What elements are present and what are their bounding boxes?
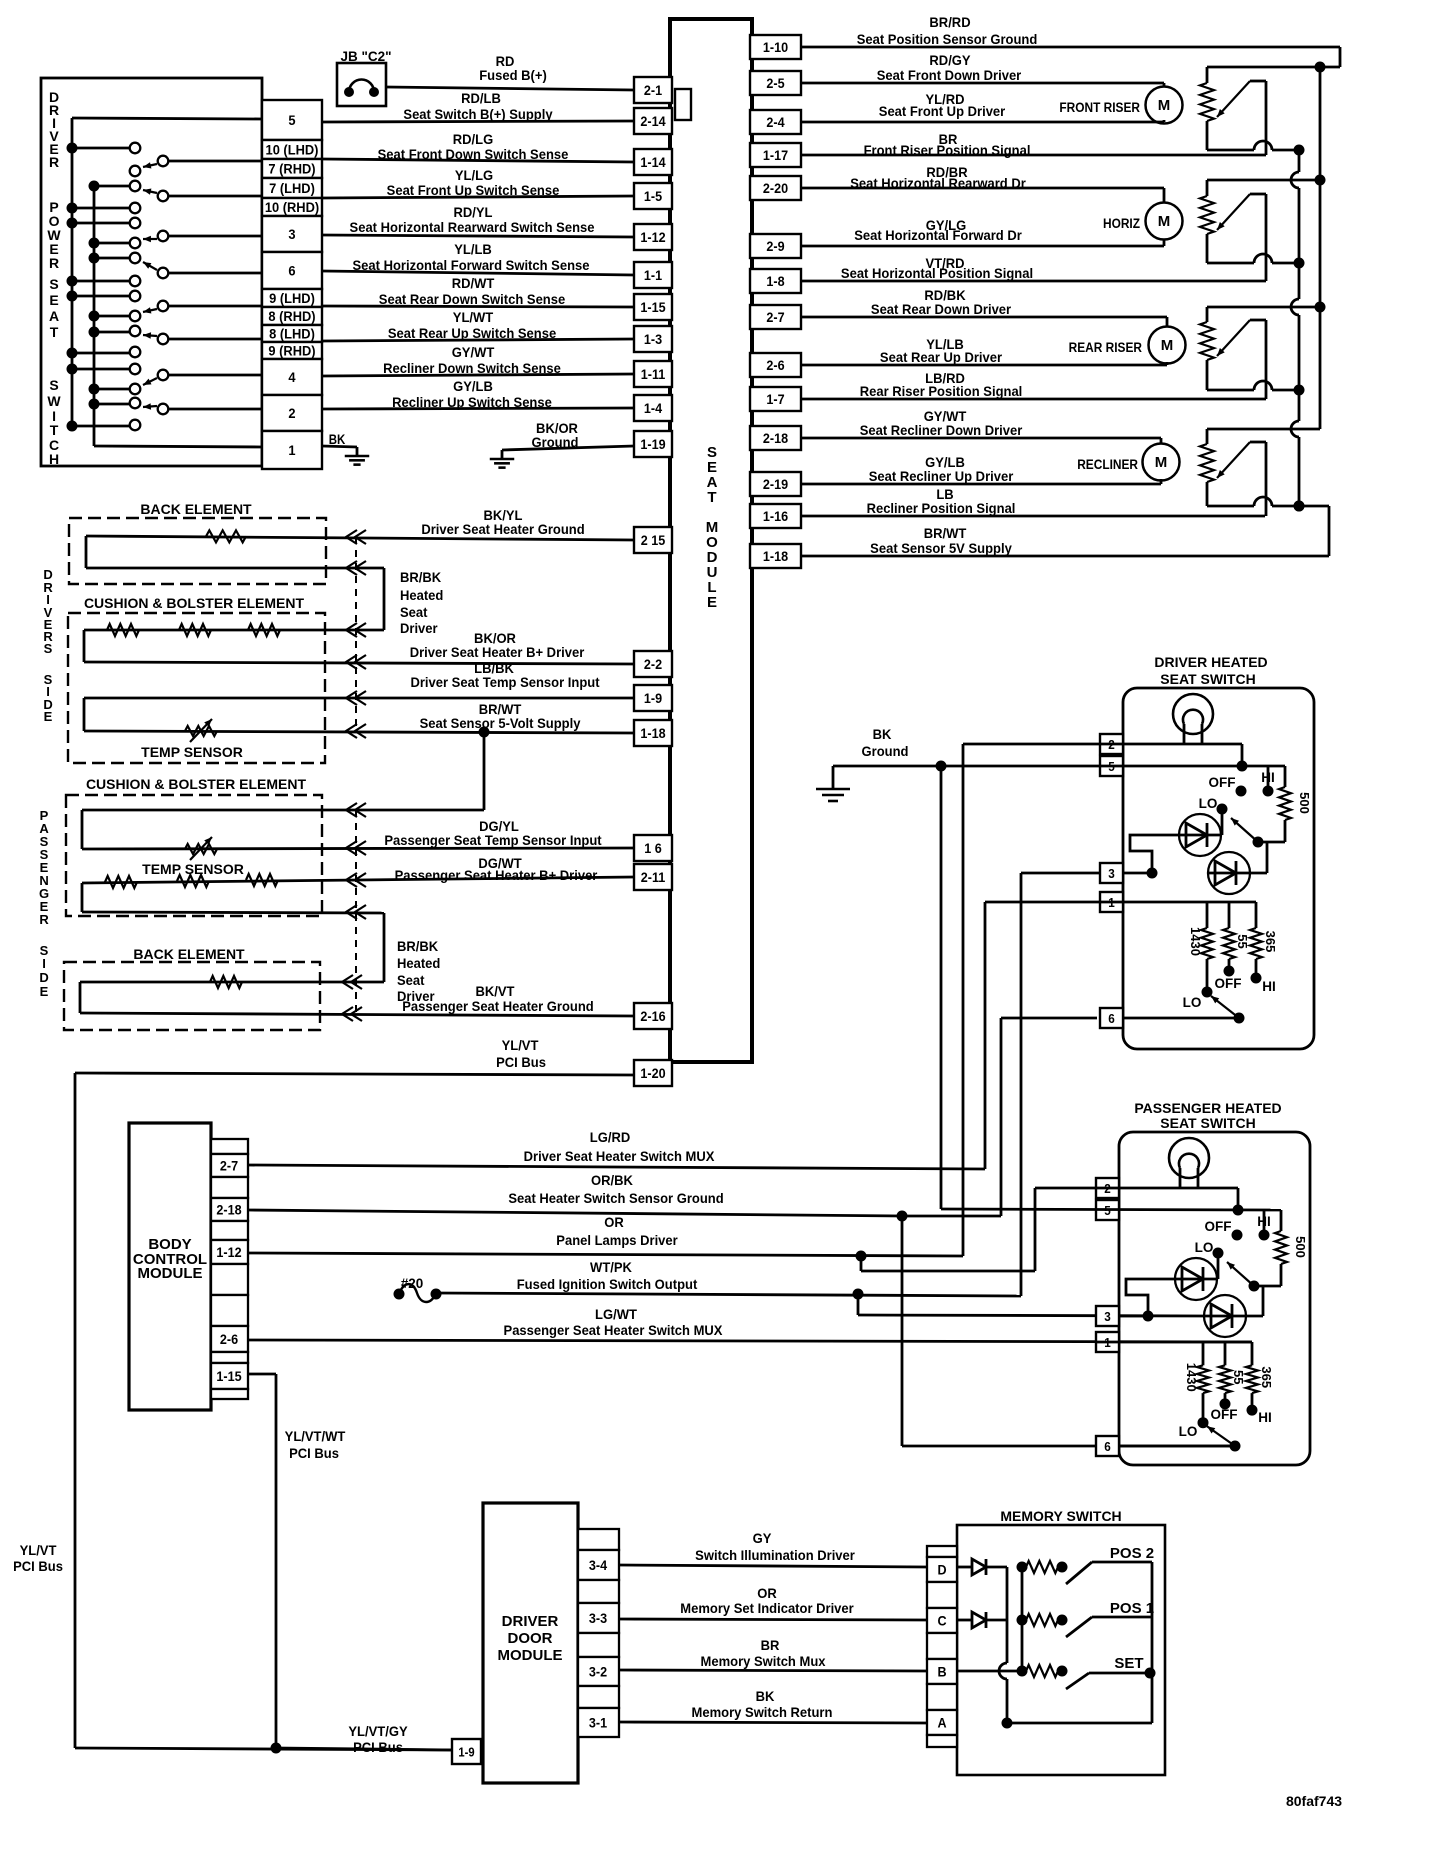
svg-text:BR/BK: BR/BK [397, 939, 438, 955]
svg-text:365: 365 [1263, 931, 1278, 953]
svg-text:500: 500 [1297, 792, 1312, 814]
svg-text:Fused B(+): Fused B(+) [479, 68, 547, 84]
svg-text:10 (RHD): 10 (RHD) [265, 200, 319, 216]
svg-text:OR/BK: OR/BK [591, 1173, 633, 1189]
svg-text:PCI Bus: PCI Bus [289, 1446, 339, 1462]
svg-text:1-4: 1-4 [644, 400, 663, 416]
svg-text:BR/RD: BR/RD [929, 15, 970, 31]
svg-text:6: 6 [288, 263, 295, 279]
svg-text:PCI Bus: PCI Bus [13, 1559, 63, 1575]
svg-text:Driver Seat Heater Switch MUX: Driver Seat Heater Switch MUX [524, 1149, 715, 1165]
svg-text:10 (LHD): 10 (LHD) [266, 142, 319, 158]
svg-text:Seat Front Down Switch Sense: Seat Front Down Switch Sense [378, 147, 569, 163]
svg-text:2-14: 2-14 [640, 113, 666, 129]
svg-text:OFF: OFF [1205, 1219, 1232, 1234]
svg-text:Seat Position Sensor Ground: Seat Position Sensor Ground [857, 32, 1038, 48]
svg-text:7 (LHD): 7 (LHD) [269, 181, 315, 197]
svg-text:BK: BK [329, 432, 346, 447]
svg-text:CUSHION & BOLSTER ELEMENT: CUSHION & BOLSTER ELEMENT [84, 595, 305, 611]
svg-text:M: M [1158, 97, 1171, 114]
svg-text:Recliner Position Signal: Recliner Position Signal [867, 501, 1016, 517]
svg-text:2-7: 2-7 [220, 1158, 238, 1174]
svg-text:Seat Rear Down Driver: Seat Rear Down Driver [871, 302, 1012, 318]
svg-text:2-16: 2-16 [640, 1008, 665, 1024]
svg-text:Switch Illumination Driver: Switch Illumination Driver [695, 1548, 855, 1564]
svg-text:POS 2: POS 2 [1110, 1545, 1154, 1562]
svg-text:GY: GY [753, 1531, 772, 1547]
svg-text:OFF: OFF [1215, 976, 1242, 991]
svg-text:HORIZ: HORIZ [1103, 215, 1140, 231]
svg-text:LO: LO [1183, 995, 1202, 1010]
svg-text:PASSENGER HEATED: PASSENGER HEATED [1134, 1100, 1281, 1116]
svg-text:5: 5 [288, 113, 296, 129]
svg-text:R: R [39, 912, 49, 927]
svg-text:BR: BR [761, 1638, 780, 1654]
svg-text:3-2: 3-2 [589, 1664, 607, 1680]
svg-text:YL/LB: YL/LB [454, 242, 492, 258]
svg-text:3: 3 [288, 227, 295, 243]
svg-text:80faf743: 80faf743 [1286, 1793, 1342, 1809]
svg-text:H: H [49, 451, 59, 467]
svg-text:GY/LB: GY/LB [453, 379, 493, 395]
svg-text:MODULE: MODULE [498, 1647, 563, 1664]
svg-text:Seat Horizontal Rearward Switc: Seat Horizontal Rearward Switch Sense [350, 220, 595, 236]
svg-text:Ground: Ground [862, 744, 909, 760]
svg-text:3: 3 [1108, 866, 1115, 881]
svg-text:B: B [937, 1664, 946, 1680]
svg-text:YL/WT: YL/WT [453, 310, 494, 326]
svg-text:Passenger Seat Heater Switch M: Passenger Seat Heater Switch MUX [504, 1323, 723, 1339]
svg-text:55: 55 [1231, 1370, 1246, 1384]
svg-text:1-12: 1-12 [640, 229, 665, 245]
svg-text:HI: HI [1261, 770, 1275, 785]
svg-text:YL/VT: YL/VT [502, 1038, 540, 1054]
svg-text:POS 1: POS 1 [1110, 1600, 1154, 1617]
svg-text:Passenger Seat Heater B+ Drive: Passenger Seat Heater B+ Driver [395, 868, 598, 884]
svg-text:HI: HI [1257, 1214, 1271, 1229]
svg-text:Seat Sensor 5-Volt Supply: Seat Sensor 5-Volt Supply [420, 716, 581, 732]
svg-text:T: T [707, 489, 716, 506]
svg-text:TEMP SENSOR: TEMP SENSOR [141, 744, 243, 760]
svg-text:Seat Horizontal Forward Switch: Seat Horizontal Forward Switch Sense [353, 258, 590, 274]
svg-text:Driver Seat Heater Ground: Driver Seat Heater Ground [421, 522, 584, 538]
svg-text:LG/RD: LG/RD [590, 1130, 631, 1146]
svg-text:1-11: 1-11 [641, 366, 666, 382]
svg-text:Panel Lamps Driver: Panel Lamps Driver [556, 1233, 678, 1249]
svg-text:1-20: 1-20 [640, 1065, 665, 1081]
svg-text:E: E [40, 984, 49, 999]
svg-text:1-15: 1-15 [216, 1368, 242, 1384]
svg-text:M: M [1161, 337, 1174, 354]
svg-text:Memory Switch Mux: Memory Switch Mux [701, 1654, 826, 1670]
svg-text:Memory Switch Return: Memory Switch Return [692, 1705, 833, 1721]
svg-text:1-18: 1-18 [640, 725, 665, 741]
svg-text:Seat Recliner Down Driver: Seat Recliner Down Driver [860, 423, 1023, 439]
svg-text:BK: BK [756, 1689, 775, 1705]
svg-text:D: D [937, 1562, 946, 1578]
svg-text:Seat Heater Switch Sensor Grou: Seat Heater Switch Sensor Ground [508, 1191, 723, 1207]
svg-text:DRIVER: DRIVER [502, 1613, 559, 1630]
svg-text:CUSHION & BOLSTER ELEMENT: CUSHION & BOLSTER ELEMENT [86, 776, 307, 792]
svg-text:RD/WT: RD/WT [452, 276, 495, 292]
svg-text:BR/BK: BR/BK [400, 570, 441, 586]
svg-text:Seat: Seat [400, 605, 428, 621]
svg-text:FRONT RISER: FRONT RISER [1059, 99, 1140, 115]
svg-text:Recliner Up Switch Sense: Recliner Up Switch Sense [392, 395, 552, 411]
svg-text:YL/LG: YL/LG [455, 168, 493, 184]
svg-text:BK/VT: BK/VT [475, 984, 515, 1000]
svg-text:1-14: 1-14 [640, 154, 666, 170]
svg-text:9 (LHD): 9 (LHD) [269, 291, 315, 307]
svg-text:A: A [937, 1715, 946, 1731]
svg-text:Seat Horizontal Position Signa: Seat Horizontal Position Signal [841, 266, 1033, 282]
svg-text:2-9: 2-9 [766, 238, 784, 254]
svg-text:E: E [44, 709, 53, 724]
svg-text:R: R [49, 154, 59, 170]
svg-text:OFF: OFF [1211, 1407, 1238, 1422]
svg-text:LO: LO [1195, 1240, 1214, 1255]
svg-text:2-5: 2-5 [766, 75, 785, 91]
svg-text:PCI Bus: PCI Bus [496, 1055, 546, 1071]
svg-text:Rear Riser Position Signal: Rear Riser Position Signal [860, 384, 1023, 400]
svg-text:Seat Horizontal Forward Dr: Seat Horizontal Forward Dr [854, 228, 1022, 244]
svg-text:6: 6 [1108, 1011, 1115, 1026]
svg-text:RD/GY: RD/GY [929, 53, 970, 69]
svg-text:T: T [50, 422, 59, 438]
svg-text:Seat Front Up Switch Sense: Seat Front Up Switch Sense [387, 183, 560, 199]
svg-text:OR: OR [604, 1215, 624, 1231]
svg-text:PCI Bus: PCI Bus [353, 1740, 403, 1756]
svg-text:2 15: 2 15 [641, 532, 666, 548]
svg-text:Fused Ignition Switch Output: Fused Ignition Switch Output [517, 1277, 698, 1293]
svg-text:R: R [49, 255, 59, 271]
svg-text:T: T [50, 324, 59, 340]
svg-text:2-1: 2-1 [644, 82, 663, 98]
svg-text:2-2: 2-2 [644, 656, 662, 672]
svg-text:1-1: 1-1 [644, 267, 663, 283]
svg-text:RECLINER: RECLINER [1077, 456, 1138, 472]
svg-text:I: I [42, 956, 46, 971]
svg-text:RD/LB: RD/LB [461, 91, 501, 107]
svg-text:YL/VT/WT: YL/VT/WT [285, 1429, 346, 1445]
svg-text:2-18: 2-18 [216, 1202, 241, 1218]
svg-text:YL/VT/GY: YL/VT/GY [348, 1724, 407, 1740]
svg-text:1-16: 1-16 [763, 508, 788, 524]
svg-text:#20: #20 [401, 1276, 424, 1291]
svg-text:4: 4 [288, 370, 296, 386]
svg-text:365: 365 [1259, 1366, 1274, 1388]
svg-text:Seat Recliner Up Driver: Seat Recliner Up Driver [869, 469, 1014, 485]
svg-text:YL/VT: YL/VT [20, 1543, 58, 1559]
svg-text:1-15: 1-15 [640, 299, 666, 315]
svg-text:DOOR: DOOR [508, 1630, 553, 1647]
svg-text:1-10: 1-10 [763, 39, 788, 55]
svg-text:GY/WT: GY/WT [452, 345, 495, 361]
svg-text:Seat Switch B(+) Supply: Seat Switch B(+) Supply [403, 107, 553, 123]
svg-text:DRIVER HEATED: DRIVER HEATED [1154, 654, 1267, 670]
svg-text:6: 6 [1104, 1439, 1111, 1454]
svg-text:8 (RHD): 8 (RHD) [268, 309, 315, 325]
svg-text:E: E [49, 292, 58, 308]
svg-text:2-4: 2-4 [766, 114, 785, 130]
svg-text:HI: HI [1258, 1410, 1272, 1425]
svg-text:C: C [937, 1613, 946, 1629]
svg-text:1-8: 1-8 [766, 273, 784, 289]
svg-text:SET: SET [1114, 1655, 1143, 1672]
svg-text:S: S [49, 377, 58, 393]
svg-text:Seat Rear Down Switch Sense: Seat Rear Down Switch Sense [379, 292, 566, 308]
svg-text:2-19: 2-19 [763, 476, 788, 492]
svg-text:1-18: 1-18 [763, 548, 788, 564]
svg-text:2: 2 [288, 406, 295, 422]
svg-text:LO: LO [1179, 1424, 1198, 1439]
svg-text:BR/WT: BR/WT [924, 526, 967, 542]
svg-text:3: 3 [1104, 1309, 1111, 1324]
svg-text:9 (RHD): 9 (RHD) [268, 343, 315, 359]
svg-text:7 (RHD): 7 (RHD) [268, 161, 315, 177]
svg-text:RD/YL: RD/YL [453, 205, 492, 221]
svg-text:2-20: 2-20 [763, 180, 788, 196]
svg-text:BK: BK [873, 727, 892, 743]
svg-text:Seat Front Down Driver: Seat Front Down Driver [877, 68, 1022, 84]
svg-text:1430: 1430 [1184, 1363, 1199, 1392]
svg-text:OR: OR [757, 1586, 777, 1602]
svg-text:E: E [707, 594, 717, 611]
svg-text:3-1: 3-1 [589, 1715, 608, 1731]
svg-text:BACK ELEMENT: BACK ELEMENT [140, 501, 252, 517]
svg-text:Ground: Ground [532, 435, 579, 451]
svg-text:Driver Seat Temp Sensor Input: Driver Seat Temp Sensor Input [410, 675, 600, 691]
svg-text:1-5: 1-5 [644, 188, 663, 204]
svg-text:1 6: 1 6 [644, 840, 662, 856]
svg-text:TEMP SENSOR: TEMP SENSOR [142, 861, 244, 877]
svg-text:Heated: Heated [400, 588, 443, 604]
svg-text:MEMORY SWITCH: MEMORY SWITCH [1000, 1508, 1121, 1524]
svg-text:1-19: 1-19 [640, 436, 665, 452]
svg-text:SEAT SWITCH: SEAT SWITCH [1160, 671, 1255, 687]
svg-text:WT/PK: WT/PK [590, 1260, 632, 1276]
svg-text:A: A [49, 308, 59, 324]
svg-text:Seat Rear Up Driver: Seat Rear Up Driver [880, 350, 1003, 366]
svg-text:1-3: 1-3 [644, 331, 662, 347]
svg-text:55: 55 [1235, 934, 1250, 948]
svg-text:2-18: 2-18 [763, 430, 788, 446]
svg-text:Heated: Heated [397, 956, 440, 972]
svg-text:D: D [39, 970, 48, 985]
svg-text:1-9: 1-9 [644, 690, 662, 706]
svg-text:1-9: 1-9 [458, 1745, 475, 1760]
svg-text:Passenger Seat Temp Sensor Inp: Passenger Seat Temp Sensor Input [384, 833, 602, 849]
svg-text:1-12: 1-12 [216, 1244, 241, 1260]
svg-text:RD/LG: RD/LG [453, 132, 493, 148]
svg-text:M: M [1155, 454, 1168, 471]
svg-text:3-3: 3-3 [589, 1610, 607, 1626]
svg-text:Passenger Seat Heater Ground: Passenger Seat Heater Ground [402, 999, 593, 1015]
svg-text:3-4: 3-4 [589, 1557, 608, 1573]
svg-text:Seat Sensor 5V Supply: Seat Sensor 5V Supply [870, 541, 1012, 557]
svg-text:1: 1 [288, 443, 296, 459]
svg-text:Seat Front Up Driver: Seat Front Up Driver [879, 104, 1006, 120]
svg-text:2-6: 2-6 [220, 1331, 238, 1347]
svg-text:HI: HI [1262, 979, 1276, 994]
svg-text:OFF: OFF [1209, 775, 1236, 790]
svg-text:8 (LHD): 8 (LHD) [269, 326, 315, 342]
svg-text:M: M [1158, 213, 1171, 230]
svg-text:LG/WT: LG/WT [595, 1307, 638, 1323]
svg-text:Seat: Seat [397, 973, 425, 989]
svg-text:REAR RISER: REAR RISER [1069, 339, 1143, 355]
svg-text:S: S [49, 276, 58, 292]
svg-text:500: 500 [1293, 1236, 1308, 1258]
svg-text:SEAT SWITCH: SEAT SWITCH [1160, 1115, 1255, 1131]
svg-text:2-7: 2-7 [766, 309, 784, 325]
svg-text:1-17: 1-17 [763, 147, 788, 163]
svg-text:Memory Set Indicator Driver: Memory Set Indicator Driver [680, 1601, 854, 1617]
svg-text:Seat Rear Up Switch Sense: Seat Rear Up Switch Sense [388, 326, 557, 342]
svg-text:Recliner Down Switch Sense: Recliner Down Switch Sense [383, 361, 561, 377]
svg-text:LO: LO [1199, 796, 1218, 811]
svg-text:Driver: Driver [400, 621, 438, 637]
svg-text:Driver Seat Heater B+ Driver: Driver Seat Heater B+ Driver [410, 645, 585, 661]
svg-text:S: S [44, 641, 53, 656]
svg-text:1430: 1430 [1188, 927, 1203, 956]
svg-text:BACK ELEMENT: BACK ELEMENT [133, 946, 245, 962]
svg-text:1-7: 1-7 [766, 391, 784, 407]
svg-text:2-6: 2-6 [766, 357, 784, 373]
svg-text:MODULE: MODULE [138, 1265, 203, 1282]
svg-text:W: W [47, 393, 61, 409]
svg-text:2-11: 2-11 [641, 869, 666, 885]
